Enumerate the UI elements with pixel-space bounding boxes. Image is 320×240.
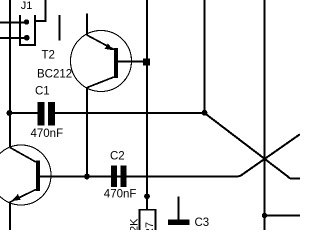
svg-text:470nF: 470nF [104,189,137,201]
svg-text:C2: C2 [110,151,125,163]
svg-text:470nF: 470nF [31,128,64,140]
node diagonal A junction [202,110,208,116]
wire pin2 left [0,37,27,39]
wire right vertical x264 [264,0,266,230]
node T1 base junction [84,174,90,180]
resistor R7 [139,210,155,230]
transistor T1 [0,145,51,205]
wire C3 lead [178,196,180,220]
wire T2 emitter top [86,13,88,35]
wire diagonal A to right [205,113,301,179]
svg-text:J1: J1 [21,0,33,12]
wire T2 collector vertical [86,87,88,177]
svg-text:C3: C3 [195,217,210,229]
node C1 left junction [7,110,13,116]
node J1 pin1 [24,19,29,24]
svg-text:2K: 2K [129,218,141,230]
wire C1 right [55,112,204,114]
capacitor C1 [37,102,55,126]
wire B horizontal and diagonal [87,134,300,176]
wire T1 emitter bottom [9,202,11,231]
node mid vertical junction [144,194,150,200]
node J1 pin2 [24,35,30,41]
wire J1 top stub [35,0,46,21]
wire stub segment [59,15,61,41]
node bottom right junction [262,213,267,218]
wire C1 left [10,112,38,114]
wire T1 base [40,175,87,177]
svg-text:BC212: BC212 [37,69,72,81]
wire top vertical x204 [204,0,206,113]
node T2 base junction [143,58,150,65]
capacitor C3 [168,220,190,225]
wire T2 base [118,61,147,63]
connector J1 [20,15,35,45]
svg-text:C1: C1 [35,86,50,98]
svg-text:T2: T2 [42,50,55,62]
wire bottom right [265,215,301,217]
svg-text:R7: R7 [144,222,156,230]
wire left vertical bus [9,0,11,148]
wire mid vertical x146 [146,0,148,210]
wire pin1 left [0,22,27,24]
capacitor C2 [111,166,127,188]
transistor T2 [71,31,132,92]
